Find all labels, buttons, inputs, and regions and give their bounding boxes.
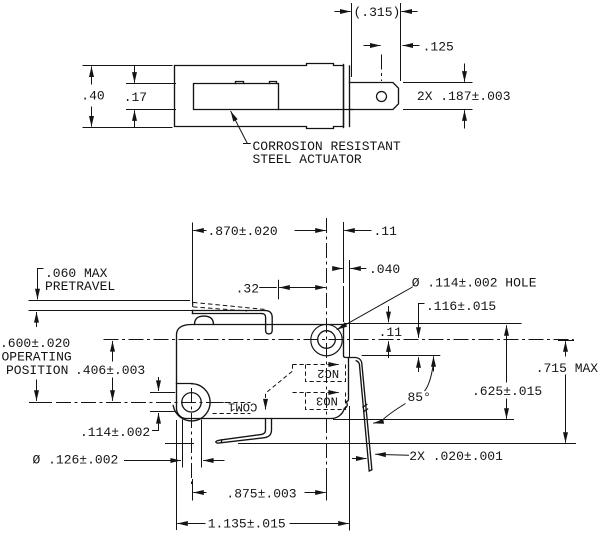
svg-text:.625±.015: .625±.015 bbox=[472, 384, 542, 399]
svg-text:.125: .125 bbox=[423, 40, 454, 55]
svg-text:.11: .11 bbox=[379, 325, 403, 340]
svg-text:NC2: NC2 bbox=[317, 366, 339, 380]
svg-text:NO3: NO3 bbox=[316, 394, 338, 408]
svg-text:STEEL ACTUATOR: STEEL ACTUATOR bbox=[253, 152, 362, 167]
svg-text:.116±.015: .116±.015 bbox=[426, 299, 496, 314]
svg-text:.40: .40 bbox=[81, 89, 104, 104]
svg-text:Ø .126±.002: Ø .126±.002 bbox=[33, 453, 119, 468]
svg-text:.715 MAX: .715 MAX bbox=[536, 361, 599, 376]
svg-text:.040: .040 bbox=[369, 262, 400, 277]
svg-text:.875±.003: .875±.003 bbox=[226, 486, 296, 501]
svg-text:COM1: COM1 bbox=[228, 399, 257, 413]
svg-text:POSITION: POSITION bbox=[6, 363, 68, 378]
svg-text:.406±.003: .406±.003 bbox=[75, 363, 145, 378]
svg-text:.11: .11 bbox=[374, 224, 398, 239]
svg-text:Ø .114±.002 HOLE: Ø .114±.002 HOLE bbox=[412, 276, 537, 291]
svg-text:.17: .17 bbox=[124, 90, 147, 105]
svg-text:85°: 85° bbox=[408, 390, 431, 405]
svg-text:PRETRAVEL: PRETRAVEL bbox=[45, 279, 115, 294]
svg-text:(.315): (.315) bbox=[354, 5, 401, 20]
svg-text:.870±.020: .870±.020 bbox=[208, 224, 278, 239]
svg-text:2X .187±.003: 2X .187±.003 bbox=[417, 89, 511, 104]
svg-text:.32: .32 bbox=[236, 282, 259, 297]
svg-text:1.135±.015: 1.135±.015 bbox=[208, 517, 286, 532]
svg-text:2X .020±.001: 2X .020±.001 bbox=[409, 449, 503, 464]
svg-text:.114±.002: .114±.002 bbox=[80, 425, 150, 440]
